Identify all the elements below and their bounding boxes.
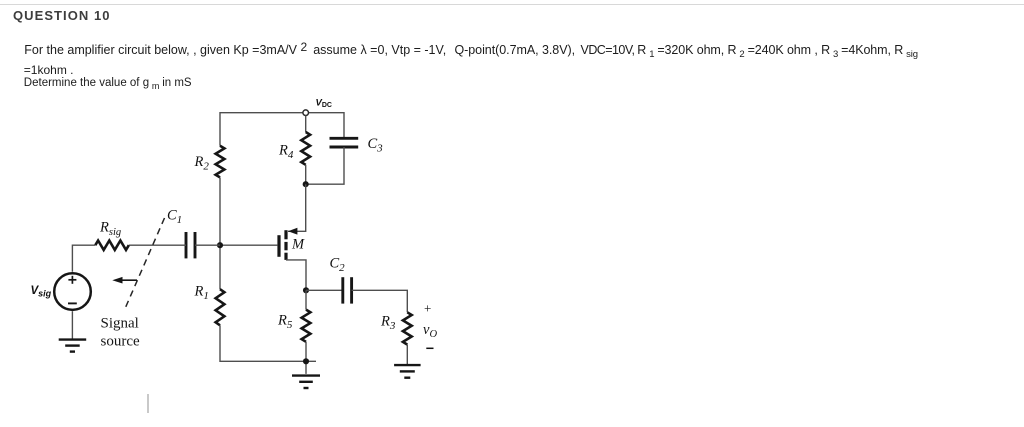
dashed boundary line through C1 (126, 218, 165, 308)
svg-text:C3: C3 (368, 136, 384, 155)
transistor M source arrow (points left into channel) (288, 228, 297, 235)
resistor R2 (216, 146, 225, 178)
arrow pointing left at signal source boundary (112, 277, 137, 284)
wire R3 bottom to ground (406, 345, 408, 364)
svg-text:VDC: VDC (316, 98, 332, 110)
transistor M gate bar (277, 235, 280, 257)
wire junction down to transistor source lead (288, 184, 306, 231)
resistor R1 (216, 289, 225, 325)
source Vsig circle (54, 273, 91, 310)
svg-text:C2: C2 (330, 256, 346, 275)
wire Rsig to C1 left plate (129, 244, 186, 246)
svg-text:M: M (291, 236, 305, 252)
svg-text:R3: R3 (380, 314, 396, 333)
question text line 1 (24, 44, 917, 57)
ground below R3 (394, 365, 421, 378)
header divider line (0, 4, 1024, 5)
wire C2 to R3 top (352, 290, 408, 312)
heading QUESTION 10 (13, 8, 111, 23)
capacitor C1 (186, 232, 195, 258)
wire R5 top to drain node (305, 290, 307, 309)
question text line 3 (24, 78, 192, 90)
svg-text:Signal: Signal (101, 315, 139, 331)
svg-text:Vsig: Vsig (31, 285, 52, 299)
svg-text:+: + (424, 301, 431, 316)
label vO minus (426, 347, 433, 349)
resistor Rsig (95, 241, 129, 250)
transistor M drain lead (286, 260, 306, 290)
junction dot drain/C2/R5 node (303, 287, 309, 293)
wire gate to left rail (220, 244, 277, 246)
ground below R5 (292, 376, 320, 388)
ground below Vsig (59, 340, 86, 352)
svg-text:R2: R2 (194, 154, 210, 173)
svg-text:vO: vO (423, 322, 437, 340)
faint cursor mark (147, 394, 149, 413)
svg-text:source: source (101, 334, 140, 350)
wire R4 bottom to junction (305, 165, 307, 184)
capacitor C2 (343, 277, 352, 303)
wire top rail right of VDC node to C3 branch (308, 113, 344, 137)
wire left rail R2 bottom to R1 top (through gate node) (219, 177, 221, 289)
wire Vsig top to Rsig (72, 245, 95, 272)
node VDC (open terminal circle) (303, 110, 309, 116)
svg-text:Rsig: Rsig (99, 220, 121, 239)
wire top rail left of VDC node (220, 113, 303, 146)
resistor R4 (301, 132, 310, 165)
svg-text:C1: C1 (167, 208, 182, 227)
junction dot gate node (217, 242, 223, 248)
Vsig minus sign (68, 302, 77, 304)
wire VDC node down to R4 (305, 115, 307, 132)
wire R5 bottom to ground node (305, 342, 307, 374)
svg-text:R4: R4 (278, 143, 294, 162)
wire R1 bottom rail to R5 bottom node (220, 325, 316, 361)
junction dot R4/C3/source node (303, 181, 309, 187)
junction dot bottom ground node (303, 358, 309, 364)
question text line 2 (24, 64, 74, 76)
capacitor C3 (330, 138, 359, 147)
resistor R5 (302, 310, 311, 342)
wire C3 bottom plate down to drain junction (308, 147, 344, 184)
Vsig plus sign (68, 276, 76, 284)
resistor R3 (403, 312, 412, 344)
wire drain node to C2 (306, 289, 342, 291)
transistor M channel (dashed) (284, 230, 287, 260)
svg-text:R1: R1 (194, 284, 209, 303)
svg-text:R5: R5 (277, 313, 293, 332)
wire Vsig bottom to ground (71, 311, 73, 338)
wire C1 right plate to gate node (195, 244, 220, 246)
